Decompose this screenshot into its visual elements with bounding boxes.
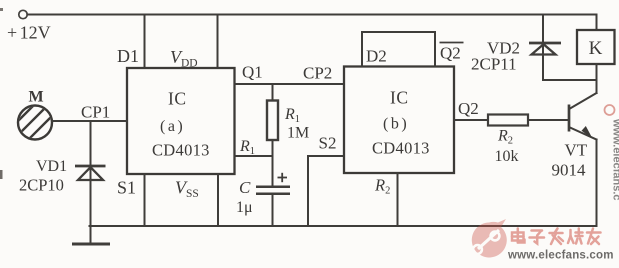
wire bottom ground rail (90, 225, 597, 227)
svg-text:D1: D1 (117, 46, 139, 66)
svg-text:CD4013: CD4013 (372, 139, 430, 158)
wire S2 (308, 156, 344, 226)
svg-text:(b): (b) (383, 116, 409, 133)
svg-text:CP1: CP1 (81, 103, 110, 122)
svg-text:S2: S2 (319, 134, 337, 153)
svg-text:(a): (a) (160, 118, 185, 135)
relay K (577, 15, 615, 81)
capacitor C (236, 173, 290, 216)
svg-text:VT: VT (565, 141, 588, 160)
IC U1a CD4013 (127, 68, 235, 174)
svg-text:2CP11: 2CP11 (471, 55, 517, 74)
wire R1 top drop (272, 84, 274, 101)
ground (72, 226, 110, 244)
wire C bottom (272, 195, 274, 226)
wire VSS pin stub (217, 174, 219, 226)
wire R1 to C (272, 140, 274, 187)
svg-text:D2: D2 (366, 47, 387, 66)
svg-text:Q2: Q2 (458, 99, 479, 118)
svg-text:Q2: Q2 (440, 44, 461, 63)
wire R2 pin stub (397, 173, 399, 226)
wire D2 to Q2bar feedback loop (362, 32, 435, 67)
svg-text:10k: 10k (495, 148, 519, 165)
diode VD2 (471, 39, 561, 74)
svg-text:IC: IC (390, 88, 409, 108)
svg-text:K: K (589, 38, 603, 59)
resistor R1 (267, 101, 309, 142)
svg-text:2CP10: 2CP10 (19, 176, 64, 195)
svg-text:S1: S1 (117, 178, 136, 198)
microphone M (12, 89, 62, 157)
svg-text:9014: 9014 (552, 161, 587, 180)
wire Q1 to CP2 (235, 83, 345, 85)
diode VD1 (19, 158, 106, 195)
watermark vertical url (605, 105, 619, 201)
svg-text:C: C (239, 178, 251, 197)
svg-text:CP2: CP2 (303, 64, 332, 83)
svg-text:www.elecfans.com: www.elecfans.com (507, 250, 614, 262)
svg-text:CD4013: CD4013 (152, 141, 210, 160)
watermark logo bottom (472, 219, 507, 257)
svg-text:+12V: +12V (7, 23, 51, 43)
svg-text:www.elecfans.c: www.elecfans.c (611, 118, 619, 201)
svg-text:Q1: Q1 (242, 63, 263, 82)
svg-text:1M: 1M (287, 125, 309, 142)
wire S1 pin stub (144, 174, 146, 226)
svg-text:VD1: VD1 (36, 158, 67, 175)
wire Q2 to base (454, 119, 568, 121)
transistor VT 9014 (552, 80, 597, 226)
label pin Q2bar (440, 43, 464, 63)
edge speck (0, 8, 3, 11)
wire top +12V rail (27, 14, 596, 16)
IC U1b CD4013 (344, 67, 454, 174)
wire VD2 branch vertical (542, 15, 544, 81)
terminal +12V (7, 10, 51, 42)
wire VD1 branch vertical (90, 121, 92, 226)
svg-text:M: M (29, 89, 44, 106)
wire VDD pin stub (217, 15, 219, 69)
svg-text:1μ: 1μ (236, 199, 253, 216)
wire CP1 (52, 120, 127, 122)
resistor R2 (488, 115, 528, 166)
wire collector top horizontal (543, 79, 597, 81)
svg-text:IC: IC (168, 89, 187, 109)
watermark text (512, 229, 601, 245)
wire D1 pin stub (144, 15, 146, 69)
wire R1 pin of IC a (235, 155, 273, 157)
